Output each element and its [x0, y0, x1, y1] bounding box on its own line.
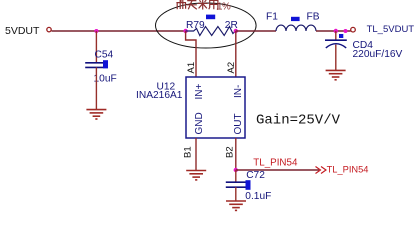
svg-text:TL_PIN54: TL_PIN54	[253, 158, 298, 169]
wire R79 right to IN-	[235, 31, 237, 77]
wire C72 lead down	[235, 170, 237, 182]
capacitor C72	[226, 182, 246, 187]
svg-text:F1: F1	[266, 12, 278, 23]
wire C54 to ground	[95, 67, 97, 109]
svg-text:TL_PIN54: TL_PIN54	[327, 165, 369, 175]
svg-text:Gain=25V/V: Gain=25V/V	[256, 113, 341, 129]
ground C54	[86, 110, 106, 119]
R79 blue mark	[206, 15, 215, 20]
junction CD4 tap	[334, 29, 338, 33]
port TL_5VDUT diamond	[351, 27, 356, 32]
resistor R79 zigzag	[186, 27, 236, 36]
ground B1	[186, 171, 206, 180]
fuse F1 blue mark	[291, 17, 300, 21]
svg-text:A1: A1	[186, 62, 197, 74]
op-amp U12 body	[186, 77, 245, 138]
svg-text:C72: C72	[246, 170, 265, 181]
junction R79 left	[183, 29, 187, 33]
wire R79 left to IN+ (jog)	[186, 31, 196, 77]
port TL_PIN54 arrow	[316, 167, 327, 174]
junction C54 tap	[94, 29, 98, 33]
wire C72 to ground	[235, 187, 237, 201]
capacitor C54 blue mark	[103, 60, 108, 68]
svg-text:B2: B2	[224, 146, 235, 158]
svg-text:B1: B1	[182, 146, 193, 158]
wire OUT pin down	[235, 138, 237, 170]
capacitor C54	[85, 63, 103, 68]
inductor FB	[276, 25, 316, 31]
wire FB to TL_5VDUT	[316, 30, 351, 32]
svg-text:GND: GND	[194, 112, 205, 134]
wire OUT to TL_PIN54	[236, 169, 319, 171]
junction OUT node	[234, 168, 238, 172]
capacitor CD4 polarized	[325, 40, 347, 48]
svg-text:A2: A2	[226, 62, 237, 74]
ground CD4	[326, 70, 346, 79]
svg-text:IN-: IN-	[233, 85, 244, 98]
svg-text:FB: FB	[307, 12, 320, 23]
annotation chinese text (cut off at top)	[176, 0, 218, 10]
svg-text:1%: 1%	[217, 2, 231, 13]
svg-text:220uF/16V: 220uF/16V	[353, 49, 403, 60]
svg-text:IN+: IN+	[194, 84, 205, 100]
wire C54 lead down	[95, 31, 97, 63]
svg-text:OUT: OUT	[233, 113, 244, 134]
wire 5VDUT to R79	[52, 30, 186, 32]
junction port dot	[344, 29, 348, 33]
svg-text:C54: C54	[95, 50, 114, 61]
wire GND pin to ground	[195, 138, 197, 171]
junction R79 right	[234, 29, 238, 33]
port 5VDUT diamond	[47, 27, 51, 31]
svg-text:0.1uF: 0.1uF	[245, 191, 271, 202]
CD4 polarity blue mark	[339, 34, 343, 38]
svg-text:5VDUT: 5VDUT	[5, 25, 40, 37]
wire CD4 to ground	[335, 45, 337, 71]
capacitor C72 blue mark	[246, 180, 251, 190]
annotation ellipse	[156, 3, 257, 48]
svg-text:TL_5VDUT: TL_5VDUT	[367, 24, 415, 35]
svg-text:INA216A1: INA216A1	[136, 90, 183, 101]
svg-text:R79: R79	[186, 20, 205, 31]
wire CD4 lead down	[335, 31, 337, 40]
ground C72	[226, 201, 246, 210]
wire R79 to FB	[236, 30, 276, 32]
